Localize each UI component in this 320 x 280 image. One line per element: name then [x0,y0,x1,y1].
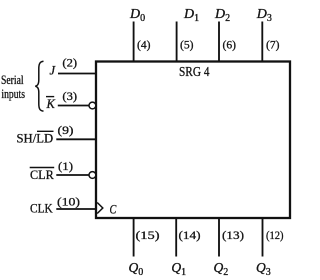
svg-text:Q1: Q1 [171,260,186,278]
svg-text:(9): (9) [58,123,74,137]
wire D3 [261,22,263,62]
svg-text:(3): (3) [62,89,77,103]
svg-text:Q2: Q2 [214,260,229,278]
svg-text:(2): (2) [62,56,77,70]
svg-text:(15): (15) [136,228,160,242]
svg-text:(12): (12) [266,228,284,242]
wire Q0 [133,218,135,257]
svg-text:(6): (6) [223,38,237,52]
wire Q1 [175,218,177,257]
brace for serial inputs [35,61,43,111]
svg-text:SH/LD: SH/LD [17,130,54,145]
svg-text:D3: D3 [256,7,272,24]
wire D0 [133,22,135,62]
svg-text:(1): (1) [58,159,73,173]
wire CLR [56,174,89,176]
overline of K [46,96,54,98]
svg-text:(13): (13) [222,228,244,242]
svg-text:(4): (4) [137,38,151,52]
bubble CLR (active-low) [89,172,96,179]
label Serial inputs [1,73,25,101]
svg-text:J: J [50,63,57,77]
shift register U1 body (SRG 4) [96,62,290,219]
svg-text:(10): (10) [57,194,80,208]
wire D2 [218,22,220,62]
svg-text:Q0: Q0 [129,260,144,278]
clock edge triangle at C [97,203,103,214]
svg-text:(5): (5) [180,38,194,52]
wire SH/LD [56,138,96,140]
wire CLK [56,208,96,210]
wire K [58,105,89,107]
svg-text:D2: D2 [214,7,230,24]
overline of LD [37,130,54,132]
svg-text:(7): (7) [266,38,280,52]
bubble K (active-low) [89,102,96,109]
svg-text:D1: D1 [183,7,199,24]
svg-text:Q3: Q3 [256,260,271,278]
overline of CLR [30,167,55,169]
wire J [58,73,96,75]
svg-text:D0: D0 [129,7,145,24]
svg-text:inputs: inputs [1,87,25,101]
svg-text:CLR: CLR [30,167,54,182]
wire Q3 [262,218,264,257]
svg-text:K: K [46,97,56,111]
svg-text:(14): (14) [179,228,201,242]
wire Q2 [218,218,220,257]
wire D1 [176,22,178,62]
svg-text:CLK: CLK [30,200,53,215]
svg-text:SRG 4: SRG 4 [179,65,210,80]
svg-text:Serial: Serial [1,73,24,87]
svg-text:C: C [110,201,117,216]
